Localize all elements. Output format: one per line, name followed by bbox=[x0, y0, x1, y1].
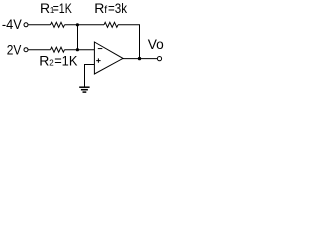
wire R1 to inverting node and on to Rf bbox=[65, 24, 105, 26]
svg-text:R: R bbox=[40, 0, 50, 16]
svg-text:Vo: Vo bbox=[148, 36, 164, 52]
svg-text:=1K: =1K bbox=[53, 0, 73, 16]
wire Rf to output (right feedback corner, down to output node) bbox=[118, 25, 140, 59]
resistor R1 bbox=[51, 22, 65, 27]
label R2=1K bbox=[39, 53, 78, 69]
svg-text:R: R bbox=[39, 53, 49, 69]
svg-text:R: R bbox=[94, 0, 104, 16]
wire non-inverting input to ground bbox=[85, 65, 95, 88]
junction dot top inverting node bbox=[76, 23, 79, 26]
ground bbox=[79, 87, 89, 92]
wire -4V to R1 bbox=[28, 24, 50, 26]
wire 2V to R2 bbox=[28, 49, 50, 51]
op-amp non-inverting input plus sign bbox=[96, 58, 100, 62]
terminal circle -4V bbox=[24, 23, 28, 27]
junction dot inverting input node bbox=[76, 48, 79, 51]
junction dot output node bbox=[138, 57, 141, 60]
svg-text:2V: 2V bbox=[7, 42, 22, 58]
op-amp U1 triangle bbox=[94, 42, 123, 74]
label R1=1K bbox=[40, 0, 72, 16]
terminal circle 2V bbox=[24, 48, 28, 52]
wire R2 to op-amp inverting input bbox=[65, 49, 95, 51]
terminal circle Vo bbox=[157, 57, 161, 61]
svg-text:=3k: =3k bbox=[108, 0, 128, 16]
label Rf=3k bbox=[94, 0, 128, 16]
svg-text:-4V: -4V bbox=[2, 16, 22, 32]
svg-text:f: f bbox=[104, 4, 107, 16]
resistor Rf bbox=[104, 22, 118, 27]
resistor R2 bbox=[51, 47, 65, 52]
op-amp inverting input minus sign bbox=[98, 48, 103, 50]
wire op-amp output to Vo terminal bbox=[123, 58, 158, 60]
wire vertical between top node and inverting input line bbox=[77, 25, 79, 50]
svg-text:=1K: =1K bbox=[54, 53, 78, 69]
